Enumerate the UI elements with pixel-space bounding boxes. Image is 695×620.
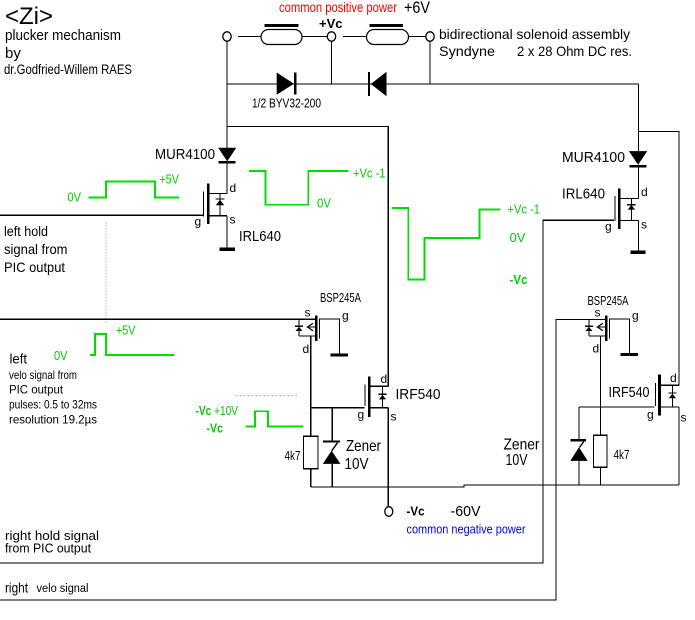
label 2 x 28 Ohm DC res. — [517, 43, 632, 59]
wire Q4 source to ground — [638, 221, 640, 251]
svg-text:0V: 0V — [510, 231, 527, 245]
pin label d Q5 — [593, 342, 600, 356]
wire left hold signal — [0, 214, 204, 216]
label +Vc -1 right — [508, 203, 541, 217]
svg-text:right: right — [5, 580, 28, 596]
label velo signal from PIC output pulses — [9, 368, 97, 427]
mosfet Q5 BSP245A right — [585, 316, 610, 341]
wire right column from diode row — [638, 84, 640, 151]
svg-text:s: s — [391, 410, 397, 424]
svg-text:velo signal: velo signal — [37, 583, 89, 595]
svg-text:4k7: 4k7 — [285, 449, 301, 463]
title text by — [5, 45, 21, 62]
svg-text:g: g — [358, 408, 365, 422]
wire Q5 drain down — [600, 336, 602, 435]
wire T2 to coil L2 — [343, 36, 367, 38]
wire left velo signal — [0, 318, 315, 320]
svg-text:<Zi>: <Zi> — [5, 3, 53, 30]
svg-text:10V: 10V — [506, 452, 528, 469]
svg-text:by: by — [5, 45, 21, 62]
wire resistor bottom left — [310, 469, 312, 487]
svg-text:IRF540: IRF540 — [396, 387, 441, 403]
mosfet Q6 IRF540 right — [655, 374, 679, 415]
ground GND4 — [620, 353, 638, 356]
label IRF540 left — [396, 387, 441, 403]
svg-text:Zener: Zener — [504, 437, 541, 454]
pin label g Q4 — [605, 220, 612, 234]
svg-text:dr.Godfried-Willem RAES: dr.Godfried-Willem RAES — [4, 62, 132, 77]
svg-text:bidirectional solenoid assembl: bidirectional solenoid assembly — [439, 26, 630, 42]
svg-text:10V: 10V — [345, 456, 369, 473]
svg-text:-60V: -60V — [451, 503, 481, 520]
label 0V middle — [317, 197, 332, 211]
wire branch right to IRF540 drain — [639, 132, 680, 386]
pin label s Q4 — [641, 218, 647, 232]
svg-text:g: g — [632, 309, 639, 323]
svg-text:PIC output: PIC output — [9, 383, 64, 397]
waveform Q1 drain +Vc-1 / 0V — [249, 171, 348, 205]
pin label d Q1 — [230, 181, 237, 195]
wire Q5 gate to ground — [610, 319, 630, 353]
svg-text:from PIC output: from PIC output — [5, 542, 92, 556]
wire MUR4100 right to drain — [638, 168, 640, 199]
pin label d Q3 — [381, 372, 388, 386]
wire zener bottom right — [578, 461, 580, 485]
resistor R2 4k7 right — [594, 435, 608, 467]
pin label g Q5 — [632, 309, 639, 323]
svg-text:BSP245A: BSP245A — [320, 291, 361, 305]
ground GND2 — [330, 353, 348, 356]
ground GND1 — [220, 248, 236, 251]
wire MUR4100 left to drain — [226, 163, 228, 193]
svg-text:1/2 BYV32-200: 1/2 BYV32-200 — [252, 97, 321, 111]
svg-text:g: g — [647, 408, 654, 422]
svg-text:s: s — [230, 213, 236, 227]
svg-text:IRF540: IRF540 — [609, 385, 650, 401]
wire right hold riser — [0, 220, 614, 563]
wire branch y126 to IRF540 drain — [227, 127, 388, 387]
waveform output both sides — [392, 208, 500, 279]
svg-text:s: s — [305, 306, 311, 320]
solenoid coil L1 — [261, 24, 302, 45]
label Zener 10V left — [345, 438, 382, 473]
diode D2 1/2 BYV32-200 right — [368, 72, 387, 97]
wire Q6 source down — [678, 407, 680, 485]
label +Vc -1 middle — [353, 167, 386, 181]
svg-text:d: d — [593, 342, 600, 356]
wire coil L1 to T2 — [302, 36, 327, 38]
svg-text:+5V: +5V — [116, 324, 136, 338]
diode D1 1/2 BYV32-200 left — [277, 73, 297, 95]
wire Q3 source down to -Vc terminal — [387, 408, 389, 507]
label -Vc +10V — [196, 404, 239, 418]
label left — [10, 351, 28, 367]
dotted helper line horizontal — [235, 394, 297, 396]
svg-text:Syndyne: Syndyne — [439, 43, 495, 59]
mosfet Q1 IRL640 left — [203, 184, 227, 225]
pin label s Q2 — [305, 306, 311, 320]
wire bottom rail left — [311, 485, 679, 487]
wire Q6 gate line — [579, 406, 655, 408]
svg-text:+5V: +5V — [160, 173, 180, 187]
svg-text:common negative power: common negative power — [407, 523, 526, 537]
pin label g Q6 — [647, 408, 654, 422]
wire Q3 gate line — [311, 407, 365, 409]
label 4k7 right — [614, 448, 630, 462]
terminal T3 right — [426, 32, 434, 41]
wire T1 down — [226, 41, 228, 84]
mosfet Q2 BSP245A left — [295, 316, 320, 341]
wire zener branch right — [578, 407, 580, 439]
svg-text:0V: 0V — [68, 191, 82, 205]
label right hold signal — [5, 529, 99, 556]
diode D4 MUR4100 right — [629, 151, 647, 168]
svg-text:s: s — [641, 218, 647, 232]
diode D3 MUR4100 left — [218, 148, 236, 164]
svg-text:Zener: Zener — [346, 438, 382, 455]
label BSP245A left — [320, 291, 361, 305]
solenoid coil L2 — [367, 24, 409, 45]
wire resistor bottom right — [600, 467, 602, 485]
waveform hold input 0V +5V — [89, 182, 179, 198]
svg-text:-Vc: -Vc — [207, 422, 224, 436]
label bidirectional solenoid assembly — [439, 26, 630, 42]
label MUR4100 right — [562, 150, 625, 166]
wire free-wheel diode row — [227, 83, 639, 85]
wire T1 to coil L1 — [238, 36, 261, 38]
svg-text:velo signal from: velo signal from — [9, 368, 77, 382]
svg-text:MUR4100: MUR4100 — [155, 147, 215, 163]
terminal T4 -Vc — [385, 507, 393, 517]
svg-text:plucker mechanism: plucker mechanism — [5, 27, 121, 44]
svg-text:IRL640: IRL640 — [562, 187, 605, 203]
pin label g Q3 — [358, 408, 365, 422]
svg-text:0V: 0V — [317, 197, 332, 211]
svg-text:d: d — [381, 372, 388, 386]
pin label s Q3 — [391, 410, 397, 424]
label MUR4100 left — [155, 147, 215, 163]
svg-text:signal from: signal from — [4, 241, 68, 257]
label -Vc right green — [510, 273, 528, 287]
svg-text:pulses: 0.5 to 32ms: pulses: 0.5 to 32ms — [9, 398, 97, 412]
mosfet Q3 IRF540 left — [365, 376, 389, 417]
pin label g Q2 — [342, 309, 349, 323]
svg-text:+Vc -1: +Vc -1 — [508, 203, 541, 217]
svg-text:+Vc -1: +Vc -1 — [353, 167, 386, 181]
label Zener 10V right — [504, 437, 541, 470]
zener Z1 left — [323, 440, 341, 464]
svg-text:d: d — [670, 371, 677, 385]
svg-text:+Vc: +Vc — [319, 16, 343, 31]
svg-text:4k7: 4k7 — [614, 448, 630, 462]
svg-text:g: g — [605, 220, 612, 234]
pin label d Q2 — [303, 342, 310, 356]
label right velo signal — [5, 580, 89, 596]
label 0V hold input — [68, 191, 82, 205]
wire Q1 source to ground — [226, 216, 228, 248]
label 4k7 left — [285, 449, 301, 463]
svg-text:left: left — [10, 351, 28, 367]
svg-text:common positive power: common positive power — [279, 0, 397, 15]
label -60V — [451, 503, 481, 520]
label +5V velo — [116, 324, 136, 338]
label 1/2 BYV32-200 — [252, 97, 321, 111]
svg-text:s: s — [681, 411, 687, 425]
wire resistor lead left top — [310, 408, 312, 436]
wire zener bottom left — [331, 464, 333, 487]
svg-text:+6V: +6V — [404, 0, 430, 17]
label 0V velo — [54, 349, 68, 363]
label IRL640 right — [562, 187, 605, 203]
pin label d Q4 — [641, 185, 648, 199]
label 0V right — [510, 231, 527, 245]
pin label g Q1 — [195, 215, 202, 229]
mosfet Q4 IRL640 right — [615, 188, 639, 229]
label -Vc gate — [207, 422, 224, 436]
svg-text:d: d — [230, 181, 237, 195]
terminal T1 left — [223, 32, 231, 41]
wire Q2 drain down — [310, 336, 312, 408]
svg-text:left hold: left hold — [4, 223, 48, 239]
svg-text:d: d — [641, 185, 648, 199]
svg-text:IRL640: IRL640 — [239, 229, 281, 245]
svg-text:-Vc: -Vc — [407, 505, 425, 519]
ground GND3 — [631, 251, 646, 255]
svg-text:0V: 0V — [54, 349, 68, 363]
label Syndyne — [439, 43, 495, 59]
label +5V hold input — [160, 173, 180, 187]
dotted helper line vertical — [105, 222, 107, 323]
label common negative power — [407, 523, 526, 537]
waveform velo input +5V pulse — [90, 334, 174, 355]
svg-text:-Vc +10V: -Vc +10V — [196, 404, 239, 418]
svg-text:resolution 19.2µs: resolution 19.2µs — [9, 413, 97, 427]
wire Q2 gate to ground — [320, 319, 340, 354]
pin label s Q5 — [595, 306, 601, 320]
resistor R1 4k7 left — [304, 436, 319, 469]
wire right velo riser — [0, 319, 589, 600]
title text author — [4, 62, 132, 77]
terminal T2 center +Vc — [327, 32, 335, 41]
svg-text:2 x 28 Ohm DC res.: 2 x 28 Ohm DC res. — [517, 43, 632, 59]
label common positive power — [279, 0, 397, 15]
svg-text:PIC output: PIC output — [4, 259, 65, 275]
svg-text:g: g — [342, 309, 349, 323]
label -Vc black — [407, 505, 425, 519]
title text plucker mechanism — [5, 27, 121, 44]
title text Zi — [5, 3, 53, 30]
svg-text:d: d — [303, 342, 310, 356]
pin label d Q6 — [670, 371, 677, 385]
wire T2 down — [331, 41, 333, 84]
wire coil L2 to T3 — [409, 36, 426, 38]
zener Z2 right — [570, 439, 587, 461]
label IRL640 left — [239, 229, 281, 245]
svg-text:g: g — [195, 215, 202, 229]
svg-text:MUR4100: MUR4100 — [562, 150, 625, 166]
label BSP245A right — [588, 294, 629, 308]
label IRF540 right — [609, 385, 650, 401]
label left hold signal from PIC output — [4, 223, 68, 275]
svg-text:-Vc: -Vc — [510, 273, 528, 287]
wire zener branch left — [331, 408, 333, 441]
svg-text:s: s — [595, 306, 601, 320]
wire T3 down — [429, 41, 431, 84]
label +Vc — [319, 16, 343, 31]
pin label s Q6 — [681, 411, 687, 425]
waveform gate drive -Vc/+10V — [246, 411, 304, 426]
wire left column down to MUR4100 — [226, 84, 228, 148]
pin label s Q1 — [230, 213, 236, 227]
label +6V — [404, 0, 430, 17]
